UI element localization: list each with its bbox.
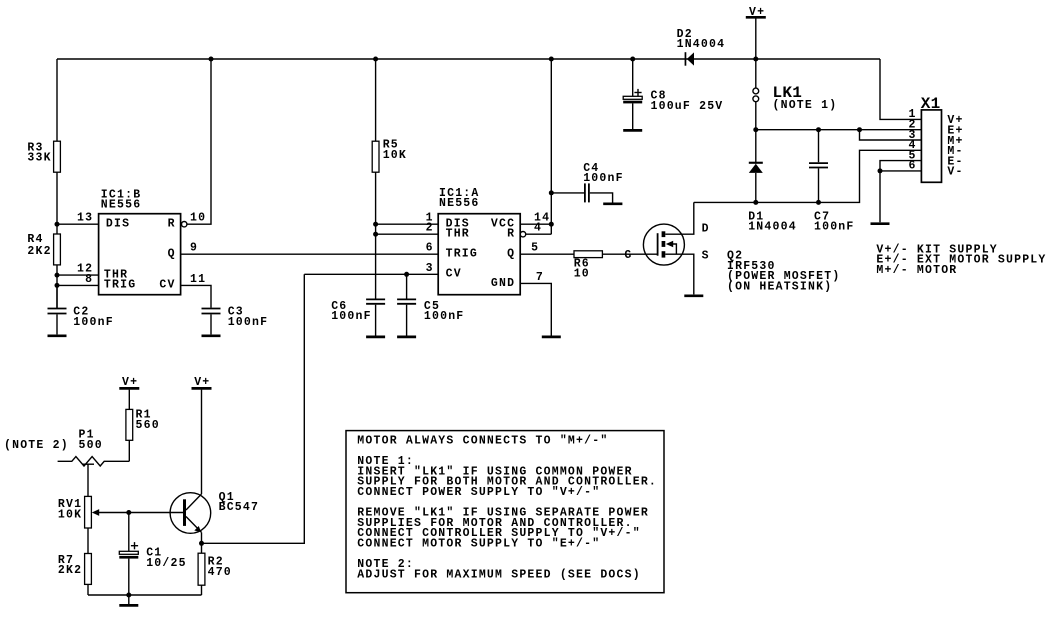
svg-text:2: 2 xyxy=(426,222,434,235)
svg-text:100nF: 100nF xyxy=(583,172,624,185)
svg-text:R: R xyxy=(507,228,515,241)
svg-text:GND: GND xyxy=(491,277,515,290)
svg-text:V-: V- xyxy=(947,166,963,179)
svg-text:13: 13 xyxy=(77,212,93,225)
wire IC1:A pin 2 xyxy=(376,233,439,235)
wire branch to X1 pin 3 xyxy=(860,130,922,140)
ground below C3 xyxy=(202,334,221,337)
wire E+ net to X1 pin 2 xyxy=(756,129,922,131)
capacitor C6 xyxy=(366,298,385,300)
ground below C5 xyxy=(397,336,416,339)
wire IC1:A Q pin 5 to gate xyxy=(520,253,657,255)
svg-text:G: G xyxy=(624,249,632,262)
svg-text:R: R xyxy=(168,218,176,231)
wire IC1:B pin 12 xyxy=(57,274,99,276)
node junction base / C1 xyxy=(126,510,131,515)
node junction C7 top xyxy=(816,127,821,132)
potentiometer RV1 xyxy=(85,496,92,528)
node junction pin3 branch xyxy=(857,127,862,132)
svg-text:NE556: NE556 xyxy=(101,199,142,212)
svg-text:X1: X1 xyxy=(921,95,941,113)
transistor Q1 BC547 xyxy=(170,493,211,534)
pin bubble IC1:B R pin 10 xyxy=(182,222,187,227)
jumper LK1 xyxy=(753,88,759,94)
ground below bottom rail xyxy=(119,604,138,607)
note box xyxy=(346,431,664,593)
svg-text:100nF: 100nF xyxy=(228,316,269,329)
svg-text:THR: THR xyxy=(446,228,470,241)
node junction C4 tap xyxy=(549,190,554,195)
svg-text:10: 10 xyxy=(190,212,206,225)
wire IC1:A pin 4 xyxy=(526,233,552,235)
node junction D1 anode xyxy=(753,200,758,205)
wire IC1:A GND pin 7 to ground xyxy=(520,283,551,335)
op-amp timer IC1:A NE556 xyxy=(438,214,520,295)
svg-text:NE556: NE556 xyxy=(439,197,480,210)
wire Q2 source to ground xyxy=(665,254,694,294)
capacitor C4 xyxy=(551,192,584,194)
wire M- net drain to X1 pin 4 xyxy=(694,150,922,202)
svg-text:TRIG: TRIG xyxy=(446,248,478,261)
capacitor C7 xyxy=(818,130,820,163)
svg-text:1N4004: 1N4004 xyxy=(677,38,726,51)
resistor R1 xyxy=(128,390,130,462)
node junction LK1 bottom / pin2 net xyxy=(753,127,758,132)
capacitor C3 xyxy=(202,308,221,310)
ground below C6 xyxy=(366,336,385,339)
wire left rail down from top rail to R3 xyxy=(56,59,58,308)
node junction pin5/pin6 xyxy=(878,168,883,173)
node junction emitter / R2 / CV wire xyxy=(199,541,204,546)
node junction R4/pin12 xyxy=(55,273,60,278)
svg-text:10K: 10K xyxy=(383,149,407,162)
svg-text:100nF: 100nF xyxy=(331,310,372,323)
node junction R3/R4/pin13 xyxy=(55,222,60,227)
diode D2 1N4004 xyxy=(685,52,687,65)
wire bottom rail xyxy=(88,594,202,596)
node junction top rail / C8 xyxy=(630,57,635,62)
svg-text:7: 7 xyxy=(536,271,544,284)
svg-text:10/25: 10/25 xyxy=(146,557,187,570)
ground below C4 xyxy=(603,202,622,205)
svg-text:Q: Q xyxy=(168,247,176,260)
wire X1 pin 6 to ground xyxy=(880,171,921,222)
wire top V+ rail xyxy=(57,58,880,60)
resistor R3 xyxy=(54,141,61,172)
wire IC1:B Q pin 9 to IC1:A TRIG pin 6 xyxy=(181,253,439,255)
svg-text:5: 5 xyxy=(531,242,539,255)
node junction CV/C5 xyxy=(404,272,409,277)
diode D1 1N4004 xyxy=(755,130,757,164)
ground below C2 xyxy=(48,334,67,337)
svg-text:1N4004: 1N4004 xyxy=(748,221,797,234)
svg-text:CONNECT POWER SUPPLY TO "V+/-": CONNECT POWER SUPPLY TO "V+/-" xyxy=(357,486,600,499)
ground below X1 xyxy=(871,222,890,225)
wire RV1 to R7 xyxy=(87,528,89,554)
svg-text:33K: 33K xyxy=(27,152,51,165)
op-amp timer IC1:B NE556 xyxy=(99,214,181,295)
wire IC1:A pin 3 CV xyxy=(304,273,438,275)
node junction bottom rail / ground xyxy=(126,593,131,598)
svg-text:DIS: DIS xyxy=(106,218,130,231)
Q2 body diode arrow xyxy=(666,241,673,247)
svg-text:4: 4 xyxy=(534,222,542,235)
svg-text:100nF: 100nF xyxy=(424,310,465,323)
node junction top rail / V+ LK1 xyxy=(753,57,758,62)
svg-text:100nF: 100nF xyxy=(73,316,114,329)
svg-text:BC547: BC547 xyxy=(219,501,260,514)
svg-text:470: 470 xyxy=(208,566,232,579)
node junction pin2/C6 xyxy=(373,232,378,237)
node junction VCC/R wire xyxy=(549,222,554,227)
svg-text:3: 3 xyxy=(426,262,434,275)
svg-text:V+: V+ xyxy=(194,376,210,389)
wire IC1:A VCC pin 14 to top rail xyxy=(520,223,551,225)
capacitor C8 electrolytic xyxy=(632,59,634,96)
svg-text:8: 8 xyxy=(85,273,93,286)
wire emitter to IC1:A CV xyxy=(202,274,305,543)
wire Q1 collector diagonal xyxy=(186,494,202,510)
wire Q1 emitter diagonal xyxy=(186,517,202,533)
svg-text:100nF: 100nF xyxy=(814,221,855,234)
wire V+ to Q1 collector xyxy=(201,390,203,494)
wire V+ to LK1 xyxy=(755,19,757,89)
node junction C7 bottom xyxy=(816,200,821,205)
wire IC1:B pin 10 to top rail xyxy=(187,59,211,224)
svg-text:6: 6 xyxy=(426,242,434,255)
svg-text:M+/- MOTOR: M+/- MOTOR xyxy=(876,264,957,277)
svg-text:10: 10 xyxy=(574,268,590,281)
ground below C8 xyxy=(623,129,642,132)
transistor Q2 MOSFET xyxy=(643,224,684,265)
node junction top rail / IC1:B R wire xyxy=(209,57,214,62)
resistor R6 xyxy=(574,251,602,258)
svg-text:9: 9 xyxy=(190,242,198,255)
wire top rail to X1 pin 1 xyxy=(880,59,921,119)
svg-text:V+: V+ xyxy=(122,376,138,389)
svg-text:500: 500 xyxy=(79,439,103,452)
svg-text:S: S xyxy=(702,250,710,263)
svg-text:2K2: 2K2 xyxy=(27,245,51,258)
potentiometer P1 xyxy=(58,457,130,466)
svg-text:560: 560 xyxy=(136,419,160,432)
svg-text:CV: CV xyxy=(159,279,175,292)
svg-text:11: 11 xyxy=(190,273,206,286)
capacitor C5 xyxy=(406,274,408,298)
svg-text:(NOTE 2): (NOTE 2) xyxy=(4,439,69,452)
wire R2 bottom to rail xyxy=(201,585,203,595)
svg-text:6: 6 xyxy=(909,160,917,173)
svg-text:2K2: 2K2 xyxy=(58,564,82,577)
wire IC1:B CV pin 11 to C3 xyxy=(181,285,211,307)
ground below Q2 source xyxy=(684,294,703,297)
pin bubble IC1:A R pin 4 xyxy=(520,232,525,237)
svg-text:100uF 25V: 100uF 25V xyxy=(651,100,724,113)
wire IC1:B pin 8 xyxy=(57,284,99,286)
wire Q2 drain xyxy=(665,202,694,234)
node junction pin8/C2 xyxy=(55,283,60,288)
wire IC1:B pin 13 xyxy=(57,223,99,225)
resistor R2 xyxy=(198,553,205,585)
svg-text:10K: 10K xyxy=(58,508,82,521)
svg-text:D: D xyxy=(702,223,710,236)
svg-text:ADJUST FOR MAXIMUM SPEED (SEE: ADJUST FOR MAXIMUM SPEED (SEE DOCS) xyxy=(357,568,641,581)
svg-text:MOTOR ALWAYS CONNECTS TO "M+/-: MOTOR ALWAYS CONNECTS TO "M+/-" xyxy=(357,434,608,447)
capacitor C1 electrolytic xyxy=(128,513,130,552)
svg-text:(ON HEATSINK): (ON HEATSINK) xyxy=(727,281,832,294)
wire IC1:A pin 1 xyxy=(376,223,439,225)
resistor R4 xyxy=(54,234,61,265)
svg-text:(NOTE 1): (NOTE 1) xyxy=(773,99,838,112)
capacitor C2 xyxy=(56,285,58,307)
svg-text:CV: CV xyxy=(446,268,462,281)
node junction R5/pin1 xyxy=(373,222,378,227)
connector X1 xyxy=(921,110,941,182)
wire X1 pin 5 to ground xyxy=(880,161,921,171)
node junction top rail / R5 xyxy=(373,57,378,62)
svg-text:Q: Q xyxy=(507,248,515,261)
node junction top rail / VCC wire xyxy=(549,57,554,62)
ground below pin 7 xyxy=(542,336,561,339)
resistor R5 xyxy=(375,59,377,299)
svg-text:CONNECT MOTOR SUPPLY TO "E+/-": CONNECT MOTOR SUPPLY TO "E+/-" xyxy=(357,538,600,551)
resistor R7 xyxy=(85,554,92,585)
svg-text:TRIG: TRIG xyxy=(104,279,136,292)
wire R7 bottom to rail xyxy=(87,584,89,595)
